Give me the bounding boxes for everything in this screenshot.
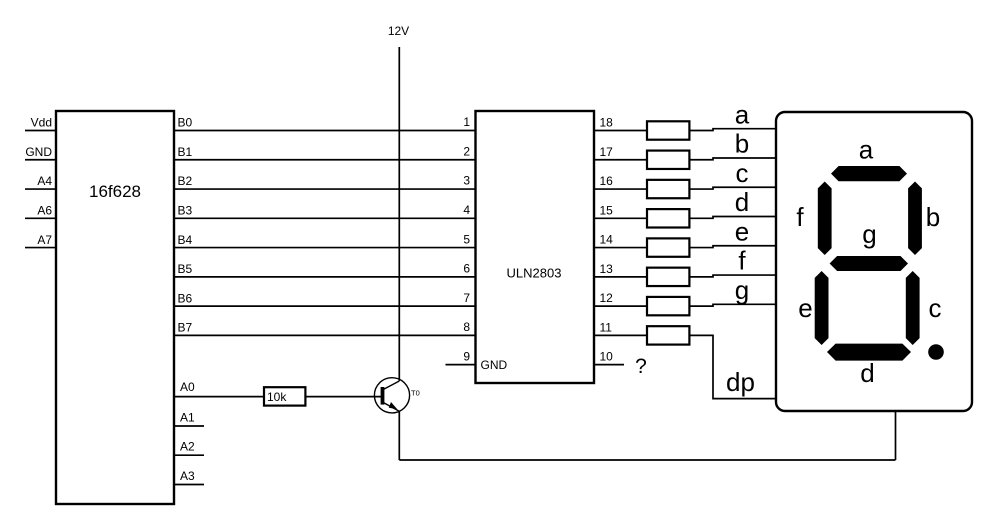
svg-text:c: c [929,293,942,323]
svg-text:B3: B3 [178,204,193,218]
svg-text:a: a [859,135,874,165]
wire pin stub A2 of U1 [174,454,204,456]
svg-text:e: e [735,216,749,246]
svg-text:11: 11 [600,320,613,334]
wire pin stub A3 of U1 [174,484,204,486]
svg-text:f: f [738,246,746,276]
transistor Q1 base bar [381,387,385,405]
wire pin 10 stub of U2 [594,364,624,366]
svg-text:?: ? [635,355,647,378]
wire pin stub GND of U1 [25,159,56,161]
svg-text:b: b [926,202,940,232]
svg-text:d: d [735,187,749,217]
7-segment display DS1 body [776,112,972,411]
svg-text:B2: B2 [178,174,193,188]
wire resistor R3 to display segment c [689,187,777,189]
display decimal point dp [928,344,944,360]
display segment d [827,344,911,361]
wire U2 pin 11 to resistor R8 [594,334,647,336]
resistor R3 body [647,180,689,198]
wire pin 9 stub of U2 [446,364,476,366]
transistor Q1 circle [374,378,409,413]
resistor R8 body [647,326,689,344]
wire U2 pin 12 to resistor R7 [594,305,647,307]
svg-text:B6: B6 [178,291,193,305]
wire net B2: U1 to ULN2803 pin 3 [174,188,476,190]
resistor R4 body [647,209,689,227]
svg-text:e: e [798,293,812,323]
resistor R1 body [647,121,689,139]
svg-text:c: c [736,158,749,188]
svg-text:A1: A1 [180,411,195,425]
svg-text:13: 13 [600,262,614,276]
IC U2 ULN2803 body [476,111,595,383]
display segment f [818,182,832,256]
transistor Q1 emitter stroke [384,403,400,412]
svg-text:5: 5 [463,232,470,246]
svg-text:B0: B0 [178,116,193,130]
svg-text:B7: B7 [178,321,193,335]
svg-text:A4: A4 [37,174,52,188]
wire resistor R8 to display dp pin [689,335,777,398]
svg-text:dp: dp [726,367,755,397]
svg-text:T0: T0 [411,389,420,398]
wire pin stub A6 of U1 [25,217,56,219]
svg-text:ULN2803: ULN2803 [507,266,562,281]
svg-text:2: 2 [463,144,470,158]
wire U2 pin 18 to resistor R1 [594,130,647,132]
wire resistor R1 to display segment a [689,129,777,131]
wire net B1: U1 to ULN2803 pin 2 [174,159,476,161]
wire 12V vertical to transistor collector [398,47,400,381]
svg-text:GND: GND [25,145,52,159]
svg-text:7: 7 [463,291,470,305]
resistor R2 body [647,151,689,169]
wire pin stub A4 of U1 [25,188,56,190]
wire pin stub Vdd of U1 [25,130,56,132]
resistor R7 body [647,297,689,315]
svg-text:4: 4 [463,203,470,217]
wire net B7: U1 to ULN2803 pin 8 [174,334,476,336]
wire net B5: U1 to ULN2803 pin 6 [174,276,476,278]
svg-text:16: 16 [600,174,614,188]
svg-text:9: 9 [463,349,470,363]
wire resistor R2 to display segment b [689,158,777,160]
wire net B0: U1 to ULN2803 pin 1 [174,130,476,132]
wire pin stub A1 of U1 [174,425,204,427]
wire U2 pin 15 to resistor R4 [594,217,647,219]
wire emitter down [398,411,400,460]
svg-text:A0: A0 [180,380,195,394]
svg-text:a: a [735,99,750,129]
svg-text:B4: B4 [178,233,193,247]
transistor Q1 collector stroke [384,381,400,389]
svg-text:d: d [860,358,874,388]
wire resistor R5 to display segment e [689,246,777,248]
transistor Q1 emitter arrow [389,402,398,409]
svg-text:g: g [862,219,876,249]
resistor R9 10k body [264,387,305,405]
svg-text:10: 10 [600,349,614,363]
svg-text:1: 1 [463,115,470,129]
display segment b [908,182,922,256]
wire U2 pin 17 to resistor R2 [594,159,647,161]
svg-text:B1: B1 [178,145,193,159]
svg-text:15: 15 [600,203,614,217]
svg-text:14: 14 [600,233,614,247]
wire U2 pin 13 to resistor R6 [594,276,647,278]
svg-text:8: 8 [463,320,470,334]
svg-text:12V: 12V [388,24,409,38]
display segment g [830,256,908,271]
svg-text:16f628: 16f628 [89,182,141,201]
wire up to display common pin [895,411,897,460]
svg-text:A2: A2 [180,440,195,454]
svg-text:g: g [735,275,749,305]
resistor R6 body [647,268,689,286]
svg-text:b: b [735,129,749,159]
svg-text:GND: GND [481,358,508,372]
svg-text:Vdd: Vdd [31,116,52,130]
display segment c [906,271,920,345]
svg-text:A7: A7 [37,233,52,247]
display segment a [831,166,907,181]
svg-text:6: 6 [463,262,470,276]
svg-text:12: 12 [600,291,614,305]
wire net B6: U1 to ULN2803 pin 7 [174,305,476,307]
wire net B3: U1 to ULN2803 pin 4 [174,217,476,219]
wire resistor R9 to transistor base [305,396,381,398]
svg-text:A3: A3 [180,469,195,483]
svg-text:A6: A6 [37,204,52,218]
wire net B4: U1 to ULN2803 pin 5 [174,247,476,249]
svg-text:17: 17 [600,145,614,159]
svg-text:f: f [796,202,804,232]
wire pin stub A7 of U1 [25,247,56,249]
resistor R5 body [647,238,689,256]
wire resistor R4 to display segment d [689,217,777,219]
wire A0 from U1 to resistor R9 [174,396,264,398]
svg-text:10k: 10k [267,390,287,404]
wire U2 pin 16 to resistor R3 [594,188,647,190]
IC U1 16f628 body [56,111,174,504]
svg-text:18: 18 [600,116,614,130]
svg-text:3: 3 [463,174,470,188]
wire U2 pin 14 to resistor R5 [594,247,647,249]
display segment e [815,271,829,345]
wire resistor R7 to display segment g [689,304,777,306]
wire bottom horizontal return [399,459,895,461]
wire resistor R6 to display segment f [689,275,777,277]
svg-text:B5: B5 [178,262,193,276]
